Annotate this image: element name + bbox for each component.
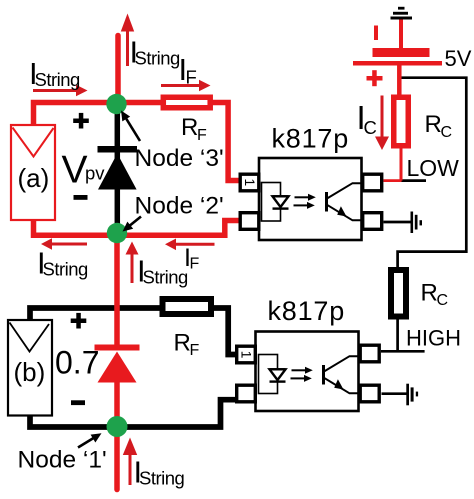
optocoupler U1 k817p body	[259, 158, 362, 240]
wire: opto U1 pin3 to ground (black)	[384, 221, 411, 224]
wire: RC1 bottom to LOW node (red)	[400, 146, 403, 181]
svg-text:0.7: 0.7	[55, 345, 99, 381]
label Node 1 with arrow	[78, 437, 96, 448]
U1 pin 3	[363, 213, 382, 230]
minus sign module (a)	[74, 195, 88, 200]
wire: string top entering node 3 (red)	[115, 36, 121, 105]
svg-text:String: String	[139, 468, 185, 489]
battery plus sign (red)	[367, 70, 383, 86]
svg-text:String: String	[35, 69, 81, 90]
arrow IF top	[161, 80, 211, 92]
svg-text:F: F	[197, 127, 207, 144]
wire: module (a) bottom to node 2 and on to opto U1 pin2 (red)	[34, 218, 241, 235]
U1 emitter arrowhead	[337, 206, 346, 216]
battery minus sign (red)	[374, 26, 378, 41]
wire: battery plus to RC1 (red)	[397, 66, 402, 98]
svg-text:String: String	[143, 267, 189, 288]
svg-text:k817p: k817p	[272, 124, 350, 154]
wire: RF2 right to opto U2 pin1 (black)	[212, 308, 237, 355]
U2 phototransistor emitter	[324, 378, 359, 394]
U2 phototransistor collector	[324, 356, 359, 371]
PV module (a)	[11, 125, 55, 220]
node 2	[107, 223, 127, 243]
bypass diode D1 triangle (black)	[98, 154, 137, 190]
optocoupler U2 k817p body	[256, 332, 359, 412]
svg-text:F: F	[186, 67, 197, 88]
svg-text:R: R	[421, 280, 438, 307]
battery B1 negative plate	[373, 48, 430, 57]
wire: RC2 bottom to HIGH node (black)	[396, 318, 399, 351]
U1 phototransistor collector	[327, 183, 362, 198]
wire: node 2 down to bypass diode D2 (red)	[114, 233, 120, 347]
U2 internal LED loop	[259, 355, 278, 394]
svg-text:String: String	[43, 259, 89, 280]
wire: HIGH node line (black)	[381, 350, 425, 353]
wire: module (b) bottom through node 1 to opto U2 pin2 (black)	[30, 400, 236, 427]
wire: LOW node stub (black)	[401, 179, 426, 182]
resistor RC1 (red)	[394, 97, 409, 146]
svg-text:5V: 5V	[445, 46, 472, 71]
label Node 2 with arrow	[128, 217, 141, 228]
U1 LED anode line	[273, 195, 289, 197]
minus sign module (b)	[71, 400, 85, 405]
U2 pin 4	[360, 345, 379, 362]
resistor RF2 (black)	[163, 299, 212, 314]
U1 pin 4	[363, 174, 382, 191]
arrow IString bottom	[123, 438, 137, 486]
svg-text:Node ‘1': Node ‘1'	[18, 447, 107, 474]
label Node 3 with arrow	[126, 118, 141, 142]
bypass diode D2 cathode bar (red)	[95, 345, 140, 351]
plus sign module (a)	[73, 113, 89, 129]
U1 pin 2	[240, 213, 259, 230]
arrow IString below node 2	[126, 242, 139, 284]
wire: node 3 to diode D1 to node 2 (black)	[115, 104, 121, 233]
bypass diode D2 triangle (red)	[98, 352, 137, 383]
svg-text:F: F	[190, 342, 200, 359]
svg-text:R: R	[181, 114, 198, 141]
wire: opto U2 pin3 to ground (black)	[382, 392, 407, 395]
arrow IString mid-left	[41, 238, 87, 250]
U1 LED triangle	[273, 196, 289, 207]
U1 LED cathode bar	[273, 207, 289, 209]
U2 pin 1	[237, 346, 256, 363]
U2 pin 3	[360, 385, 379, 402]
wire: diode D2 through node 1 to string bottom (red)	[114, 380, 120, 490]
svg-text:1: 1	[242, 178, 258, 186]
U1 phototransistor base bar	[325, 192, 328, 212]
resistor RC2 (black)	[391, 270, 406, 317]
wire: module (b) top to RF2 (black)	[30, 308, 161, 321]
U2 pin 2	[237, 385, 256, 402]
U2 LED triangle	[270, 369, 286, 380]
wire: 5V rail from battery to RC2 (black)	[398, 78, 467, 268]
svg-text:HIGH: HIGH	[406, 326, 461, 351]
PV module (b)	[8, 320, 52, 416]
node 1	[107, 416, 128, 437]
ground at U2 output	[406, 384, 418, 406]
U1 pin 1	[240, 174, 259, 191]
arrow IC	[375, 96, 389, 151]
svg-text:Node ‘3': Node ‘3'	[135, 145, 224, 172]
svg-text:R: R	[174, 330, 191, 357]
bypass diode D1 cathode bar (black)	[98, 146, 138, 153]
svg-text:(b): (b)	[14, 357, 46, 387]
wire: top-left loop from module (a) top to node 3 (red)	[34, 103, 118, 126]
U2 emitter arrowhead	[334, 379, 343, 389]
wire: RF1 right to opto U1 pin1 (red)	[211, 103, 240, 181]
U2 phototransistor base bar	[322, 365, 325, 385]
U1 internal LED loop	[262, 183, 281, 222]
wire: node 3 to RF1 (red)	[117, 100, 162, 106]
wire: opto U1 pin4 to LOW node (red)	[384, 179, 402, 182]
arrow IString top	[121, 14, 134, 67]
resistor RF1 (red)	[163, 97, 210, 108]
arrow IF mid	[165, 239, 215, 251]
U2 LED cathode bar	[270, 380, 286, 382]
svg-text:C: C	[441, 124, 453, 141]
svg-text:String: String	[135, 48, 181, 69]
ground at 5V supply	[391, 7, 413, 20]
svg-text:F: F	[190, 256, 200, 273]
svg-text:(a): (a)	[18, 163, 50, 193]
arrow IString upper-left	[33, 85, 88, 97]
U2 light arrow upper	[292, 369, 306, 371]
svg-text:1: 1	[238, 351, 254, 359]
U1 light arrow lower	[294, 204, 308, 206]
U1 light arrow upper	[295, 196, 309, 198]
node 3	[106, 94, 126, 114]
svg-text:k817p: k817p	[268, 296, 346, 326]
U2 LED anode line	[270, 368, 286, 370]
U2 light arrow lower	[291, 377, 305, 379]
svg-text:LOW: LOW	[407, 155, 460, 181]
svg-text:R: R	[425, 111, 442, 138]
plus sign module (b)	[71, 313, 87, 329]
PV module (b) chevron	[10, 323, 50, 352]
wire: ground to battery minus (red)	[399, 20, 403, 49]
svg-text:Node ‘2': Node ‘2'	[135, 193, 224, 220]
PV module (a) chevron	[13, 128, 54, 157]
svg-text:C: C	[364, 117, 377, 138]
svg-text:pv: pv	[85, 163, 105, 184]
svg-text:C: C	[437, 292, 449, 309]
ground at U1 output	[411, 212, 423, 234]
U1 phototransistor emitter	[327, 205, 362, 221]
battery B1 positive plate	[353, 61, 442, 66]
svg-text:V: V	[62, 149, 88, 192]
